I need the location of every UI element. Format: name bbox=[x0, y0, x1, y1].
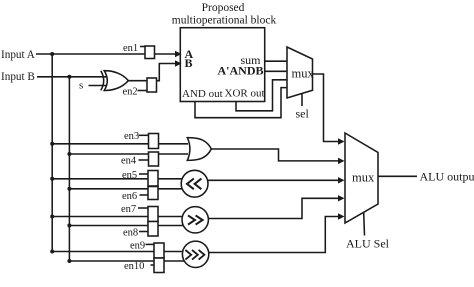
svg-text:en3: en3 bbox=[124, 131, 139, 142]
shift-right chevrons bbox=[188, 215, 203, 224]
mux2 input arrow 4 bbox=[338, 195, 345, 201]
wire en7 row bbox=[52, 216, 182, 218]
mux2 input arrow 5 bbox=[338, 213, 345, 219]
wire s input bbox=[89, 85, 108, 87]
svg-text:Proposed: Proposed bbox=[202, 2, 245, 14]
svg-text:Input A: Input A bbox=[1, 49, 35, 61]
enable box en9 bbox=[154, 243, 164, 258]
svg-text:mux: mux bbox=[292, 67, 315, 81]
wire en3 label connector bbox=[139, 134, 149, 136]
enable box en10 bbox=[154, 258, 164, 273]
svg-text:en8: en8 bbox=[123, 228, 138, 239]
wire en7 label connector bbox=[138, 207, 148, 209]
enable box en2 bbox=[147, 78, 157, 92]
OR gate U3 bbox=[187, 138, 211, 161]
node en7 junction dot bbox=[50, 215, 54, 219]
mux2 input arrow 1 bbox=[338, 138, 345, 144]
wire XOR out loop to mux1 bbox=[236, 80, 287, 111]
node en10 junction dot bbox=[67, 259, 71, 263]
enable box en5 bbox=[148, 171, 158, 187]
node en9 junction dot bbox=[50, 250, 54, 254]
svg-text:en7: en7 bbox=[121, 204, 136, 215]
wire en6 label connector bbox=[140, 194, 149, 196]
wire bus B vertical bbox=[68, 77, 70, 261]
svg-text:multioperational block: multioperational block bbox=[172, 15, 277, 27]
node en8 junction dot bbox=[67, 224, 71, 228]
shift-left chevrons bbox=[187, 179, 201, 190]
node en6 junction dot bbox=[67, 187, 71, 191]
block input arrow A bbox=[175, 51, 182, 57]
mux2 input arrow 3 bbox=[338, 177, 345, 183]
wire rot output to mux2 bbox=[209, 217, 339, 253]
wire shl output to mux2 bbox=[208, 179, 339, 181]
svg-text:Input B: Input B bbox=[1, 71, 35, 83]
svg-text:ALU Sel: ALU Sel bbox=[346, 237, 390, 251]
svg-text:mux: mux bbox=[352, 170, 375, 184]
wire A'ANDB to mux1 bbox=[265, 70, 287, 72]
wire en8 label connector bbox=[139, 231, 148, 233]
svg-text:en6: en6 bbox=[122, 191, 137, 202]
enable box en8 bbox=[148, 222, 158, 237]
wire sum to mux1 bbox=[265, 60, 287, 62]
mux U8 trapezoid (ALU mux) bbox=[345, 133, 378, 223]
svg-text:s: s bbox=[79, 80, 83, 92]
wire en10 row bbox=[69, 260, 184, 262]
wire en2 to block B bbox=[157, 64, 177, 81]
enable box en6 bbox=[148, 187, 158, 200]
svg-text:en5: en5 bbox=[122, 170, 137, 181]
enable box en1 bbox=[145, 46, 155, 59]
wire mux2 sel bbox=[363, 212, 366, 235]
svg-text:ALU output: ALU output bbox=[420, 169, 474, 183]
shift-left circle U5 bbox=[181, 170, 208, 197]
svg-text:sel: sel bbox=[296, 107, 310, 121]
svg-text:B: B bbox=[185, 56, 193, 70]
wire OR output to mux2 bbox=[211, 149, 339, 161]
mux U4 trapezoid bbox=[287, 47, 313, 98]
rotate circle U7 bbox=[182, 241, 208, 267]
wire mux1 output to mux2 bbox=[313, 74, 340, 142]
enable box en3 bbox=[149, 134, 159, 149]
node A junction dot bbox=[50, 52, 54, 56]
svg-text:AND out: AND out bbox=[182, 88, 223, 100]
wire bus A vertical bbox=[51, 54, 53, 252]
wire mux1 sel bbox=[301, 94, 303, 107]
shift-right circle U6 bbox=[182, 207, 208, 233]
node en4 junction dot bbox=[67, 152, 71, 156]
wire en3 row bbox=[52, 143, 188, 145]
wire en5 label connector bbox=[139, 173, 148, 175]
wire XOR output to en2 bbox=[128, 80, 147, 82]
wire en5 row bbox=[52, 178, 182, 180]
wire en9 label connector bbox=[146, 243, 155, 245]
wire AND out loop to mux1 bbox=[195, 88, 287, 118]
wire en10 label connector bbox=[151, 264, 155, 266]
wire en8 row bbox=[69, 225, 183, 227]
svg-text:en1: en1 bbox=[123, 43, 138, 54]
svg-text:en9: en9 bbox=[130, 241, 145, 252]
proposed multioperational block U2 bbox=[180, 28, 264, 102]
wire Input B to XOR bbox=[37, 76, 107, 78]
svg-text:en4: en4 bbox=[121, 156, 137, 167]
svg-text:en10: en10 bbox=[124, 261, 144, 272]
node en5 junction dot bbox=[50, 177, 54, 181]
node en3 junction dot bbox=[50, 142, 54, 146]
wire ALU output bbox=[378, 175, 417, 177]
wire en4 row bbox=[69, 153, 188, 155]
XOR gate U1 body bbox=[104, 71, 128, 91]
XOR gate U1 back curve bbox=[101, 71, 104, 91]
svg-text:XOR out: XOR out bbox=[225, 88, 265, 100]
enable box en4 bbox=[149, 152, 159, 166]
node B junction dot bbox=[67, 75, 71, 79]
enable box en7 bbox=[148, 207, 158, 222]
wire Input A to block A bbox=[36, 53, 176, 55]
wire en6 row bbox=[69, 188, 182, 190]
block input arrow B bbox=[175, 60, 182, 66]
wire en4 label connector bbox=[139, 159, 149, 161]
mux2 input arrow 2 bbox=[338, 158, 345, 164]
svg-text:en2: en2 bbox=[123, 87, 138, 98]
svg-text:A'ANDB: A'ANDB bbox=[217, 64, 263, 78]
wire shr output to mux2 bbox=[208, 198, 339, 218]
wire en2 label connector bbox=[138, 90, 148, 92]
wire en9 row bbox=[52, 251, 183, 253]
wire en1 label connector bbox=[140, 46, 145, 48]
rotate chevrons bbox=[185, 250, 204, 260]
